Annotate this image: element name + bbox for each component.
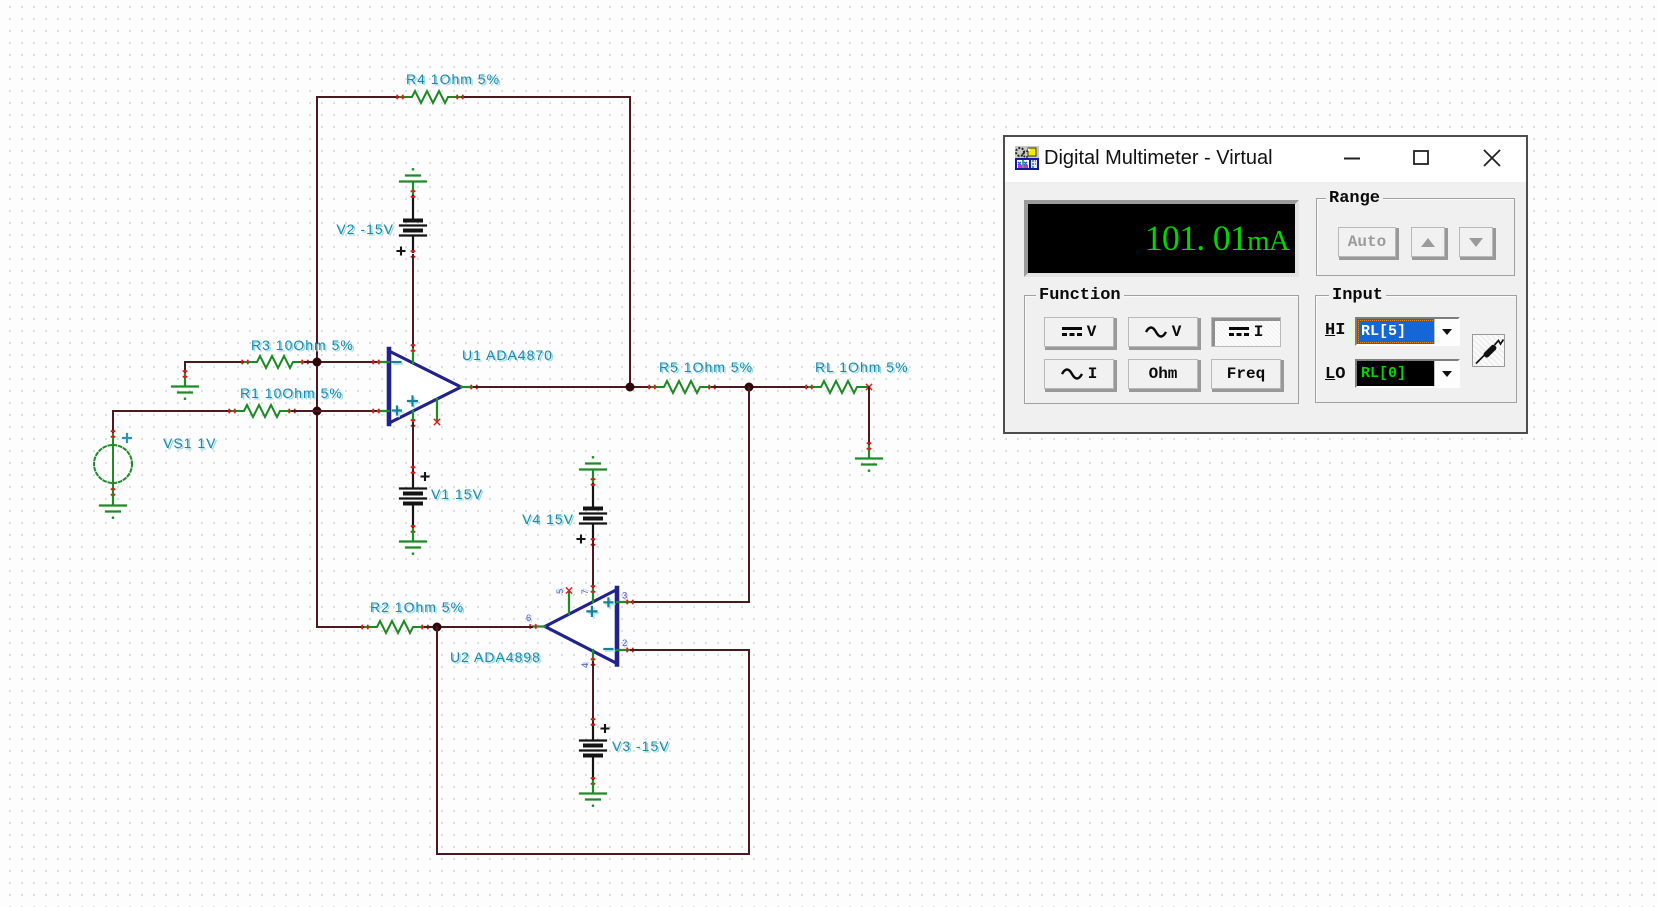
resistor R1	[228, 405, 295, 417]
wire: V2 to U1 top power pin	[412, 255, 414, 348]
Freq button	[1211, 359, 1281, 389]
wire: R3 ground stub	[185, 362, 245, 373]
wire: U1 output to R5	[474, 386, 652, 388]
window icon	[1015, 146, 1039, 170]
battery V2	[398, 190, 427, 257]
wire: R4 loop top-right (R4 to output node)	[460, 97, 630, 387]
ground (above V2, flipped)	[400, 168, 426, 194]
wire: V4 to U2 pin7	[592, 542, 594, 589]
ground (V3)	[580, 781, 606, 807]
battery V1	[400, 466, 429, 532]
ground (V1)	[400, 529, 426, 555]
wire: RL to ground	[868, 387, 870, 445]
svg-text:R1 10Ohm 5%: R1 10Ohm 5%	[240, 385, 343, 401]
DC I button (selected)	[1211, 317, 1281, 347]
LCD reading	[1145, 220, 1289, 259]
junction: R2/feedback node	[433, 623, 442, 632]
svg-text:7: 7	[580, 589, 591, 594]
ground (VS1)	[100, 493, 126, 519]
svg-text:R3 10Ohm 5%: R3 10Ohm 5%	[251, 337, 354, 353]
wire: inverting net vertical down to R2	[317, 362, 365, 627]
wire: U2 pin4 to V3	[592, 662, 594, 722]
close button	[1482, 148, 1502, 168]
Range group box	[1316, 198, 1515, 276]
Ohm button	[1128, 359, 1198, 389]
resistor R4	[396, 91, 463, 103]
op-amp U1 ADA4870	[372, 344, 477, 426]
Function group box	[1024, 295, 1299, 404]
battery V4	[578, 478, 607, 545]
minimize button	[1343, 150, 1361, 168]
svg-text:V3 -15V: V3 -15V	[612, 738, 670, 754]
Digital Multimeter window	[1003, 135, 1528, 434]
range down button	[1459, 227, 1493, 257]
HI combo (selected blue)	[1355, 317, 1460, 346]
svg-text:V4 15V: V4 15V	[522, 511, 574, 527]
junction: R1 node	[313, 407, 322, 416]
svg-text:VS1 1V: VS1 1V	[163, 435, 216, 451]
svg-text:V2 -15V: V2 -15V	[336, 221, 394, 237]
LCD display	[1024, 200, 1299, 277]
Auto button (disabled)	[1338, 227, 1396, 257]
maximize button	[1412, 149, 1430, 167]
svg-text:6: 6	[526, 613, 531, 624]
title bar	[1005, 137, 1526, 182]
range up button	[1411, 227, 1445, 257]
svg-text:U2 ADA4898: U2 ADA4898	[450, 649, 541, 665]
wire: VS1 to R1	[113, 411, 232, 433]
DC V button	[1044, 317, 1114, 347]
svg-text:2: 2	[622, 638, 627, 649]
junction: R5/RL/pin3 node	[745, 383, 754, 392]
ground (above V4, flipped)	[580, 456, 606, 482]
window title	[1044, 147, 1273, 170]
svg-text:R2 1Ohm 5%: R2 1Ohm 5%	[370, 599, 464, 615]
resistor R2	[361, 621, 428, 633]
wire: R5 to RL	[712, 386, 809, 388]
wire: R4 loop top-left (inverting node to R4)	[317, 97, 400, 362]
LO combo (black)	[1355, 359, 1460, 388]
junction: R3/R4 node	[313, 358, 322, 367]
wire: U1 bottom power to V1	[412, 423, 414, 470]
svg-text:V1 15V: V1 15V	[431, 486, 483, 502]
AC V button	[1128, 317, 1198, 347]
resistor RL	[805, 381, 871, 393]
wire: R1 to U1 non-inverting input	[292, 410, 376, 412]
battery V3	[580, 718, 609, 784]
LO label	[1325, 365, 1345, 384]
HI label	[1325, 321, 1345, 340]
op-amp U2 ADA4898	[529, 585, 633, 665]
resistor R3	[241, 356, 308, 368]
svg-text:4: 4	[580, 663, 591, 668]
Input group box	[1315, 295, 1517, 403]
svg-text:R4 1Ohm 5%: R4 1Ohm 5%	[406, 71, 500, 87]
svg-text:RL 1Ohm 5%: RL 1Ohm 5%	[815, 359, 909, 375]
wire: R3 to U1 inverting input	[305, 361, 376, 363]
ground (R3 input)	[172, 370, 198, 400]
AC I button	[1044, 359, 1114, 389]
svg-text:5: 5	[555, 589, 566, 594]
wire: U2 pin2 feedback loop	[437, 627, 749, 854]
svg-text:3: 3	[622, 591, 627, 602]
ground (RL)	[856, 442, 882, 472]
wire: output node to U2 pin3	[631, 387, 749, 602]
svg-text:U1 ADA4870: U1 ADA4870	[462, 347, 553, 363]
wire: R2 to U2 output	[425, 626, 532, 628]
junction: output/R4 node	[626, 383, 635, 392]
probe button	[1472, 334, 1505, 367]
resistor R5	[648, 381, 715, 393]
svg-text:R5 1Ohm 5%: R5 1Ohm 5%	[659, 359, 753, 375]
source VS1	[94, 430, 132, 495]
